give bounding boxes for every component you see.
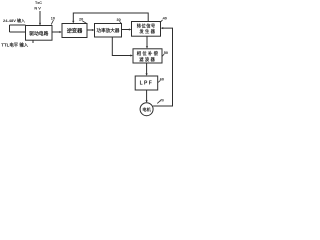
svg-text:电机: 电机 [142,106,151,113]
svg-text:20: 20 [79,18,83,22]
svg-text:N V: N V [34,6,41,11]
svg-text:发生器: 发生器 [139,28,156,35]
svg-text:50: 50 [164,51,168,55]
svg-text:40: 40 [163,16,167,20]
svg-text:逆变器: 逆变器 [67,27,83,35]
svg-text:TTL电平 输入: TTL电平 输入 [1,42,28,49]
svg-text:30: 30 [117,18,121,22]
svg-text:70: 70 [160,98,164,102]
svg-text:24-48V 输入: 24-48V 输入 [3,17,25,23]
svg-text:10: 10 [51,16,55,20]
svg-text:滤波器: 滤波器 [139,56,156,63]
svg-text:60: 60 [160,77,164,81]
svg-text:TxC: TxC [35,1,42,5]
svg-text:功率放大器: 功率放大器 [97,27,120,34]
svg-text:驱动电路: 驱动电路 [29,30,48,37]
svg-text:LPF: LPF [140,81,154,87]
